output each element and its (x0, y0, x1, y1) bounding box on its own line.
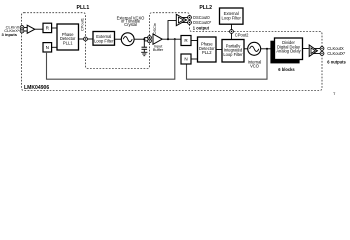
partially integrated loop filter (222, 40, 244, 63)
svg-text:6 outputs: 6 outputs (327, 59, 346, 64)
wire to CLKoutX* pin (313, 53, 322, 55)
divider N1 (43, 43, 52, 52)
svg-text:LMK04906: LMK04906 (24, 85, 49, 91)
wire loop filter to VCXO (115, 38, 122, 40)
phase detector PLL2 (198, 37, 217, 62)
svg-text:6 blocks: 6 blocks (278, 67, 295, 72)
wire divider to CLKout buffer (303, 48, 309, 50)
wire to CLKoutX pin (314, 48, 322, 50)
svg-text:PLL1: PLL1 (77, 5, 90, 11)
pin OSCin* (148, 39, 152, 43)
divider block stack (6 blocks) (271, 38, 303, 63)
capacitor C (OSCin* bypass) (142, 41, 148, 52)
label Input Buffer (153, 43, 164, 52)
label External VCXO or Tunable Crystal (117, 15, 145, 27)
svg-text:1 output: 1 output (193, 25, 210, 30)
divider N2 (181, 54, 191, 64)
svg-text:Analog Delay: Analog Delay (276, 49, 301, 54)
svg-text:CPout1: CPout1 (79, 18, 84, 31)
feedback wire PLL2 (N2 to VCO net) (187, 49, 268, 79)
wire loop filter to VCO (244, 48, 248, 50)
chip outline LMK04906 (dashed boundary) (22, 13, 323, 91)
wire to OSCout0* pin (182, 22, 190, 24)
svg-text:CPout2: CPout2 (235, 33, 249, 38)
wire buffer to R1 (35, 28, 43, 30)
svg-text:N: N (184, 57, 187, 62)
wire node to OSCin* (144, 40, 149, 42)
node VCXO output (143, 38, 145, 40)
svg-text:PLL1: PLL1 (63, 40, 73, 45)
svg-text:VCO: VCO (250, 64, 259, 69)
svg-text:PLL2: PLL2 (199, 5, 212, 11)
wire OSCin buffer to R2 (162, 38, 181, 40)
wire N1 to PD1 (52, 46, 57, 48)
pin CLKinX (20, 26, 24, 30)
ground (141, 52, 147, 55)
node PLL1 feedback branch (174, 38, 176, 40)
pin CPout1 (84, 37, 88, 41)
wire VCO to divider (261, 48, 271, 50)
wire VCXO to OSCin node (134, 38, 144, 40)
wire PD1 to external loop filter (79, 38, 94, 40)
node OSCout branch (167, 38, 169, 40)
wire node vertical (143, 38, 145, 41)
wire loop filter to CPout2 (231, 24, 233, 39)
wire to OSCout0 pin (182, 17, 190, 19)
pin OSCout0* (188, 21, 192, 25)
CLKin input buffer (27, 25, 35, 33)
svg-text:CLKoutX*: CLKoutX* (327, 51, 345, 56)
pin CLKinX* (20, 29, 24, 33)
pin CPout2 (230, 30, 234, 34)
divider R1 (43, 23, 52, 32)
CLKout buffer (differential) (309, 45, 317, 56)
wire R1 to PD1 (52, 27, 57, 29)
oscillator VCXO (121, 33, 134, 46)
oscillator internal VCO (248, 42, 261, 55)
feedback wire PLL1 (N1 to OSC net) (47, 39, 175, 79)
external loop filter PLL1 (93, 32, 115, 46)
wire R2 to PD2 (191, 40, 198, 42)
pin CLKoutX (320, 47, 324, 51)
external loop filter PLL2 (220, 8, 244, 24)
wire CLKinX* to buffer (22, 30, 27, 32)
wire PD2 to loop filter (216, 49, 222, 51)
OSCin input buffer (153, 34, 162, 44)
svg-text:OSCin: OSCin (152, 23, 157, 34)
wire CLKinX to buffer (22, 27, 27, 29)
label Internal VCO (248, 59, 262, 68)
svg-text:Crystal: Crystal (124, 22, 137, 27)
pin OSCin (148, 36, 152, 40)
svg-text:3 inputs: 3 inputs (1, 32, 17, 37)
wire node to OSCin (144, 37, 149, 39)
svg-text:Loop Filter: Loop Filter (223, 52, 243, 57)
pin OSCout0 (188, 16, 192, 20)
OSCout buffer (differential) (176, 14, 186, 25)
phase detector PLL1 (57, 24, 79, 50)
divider R2 (181, 36, 191, 46)
svg-text:PLL2: PLL2 (202, 50, 212, 55)
node VCO output (266, 48, 268, 50)
wire N2 to PD2 (191, 58, 198, 60)
wire to OSCout buffer (168, 21, 177, 40)
svg-text:Loop Filter: Loop Filter (222, 15, 242, 20)
svg-text:Buffer: Buffer (153, 47, 164, 52)
svg-text:Loop Filter: Loop Filter (94, 38, 114, 43)
pin CLKoutX* (320, 52, 324, 56)
svg-text:N: N (46, 45, 49, 50)
